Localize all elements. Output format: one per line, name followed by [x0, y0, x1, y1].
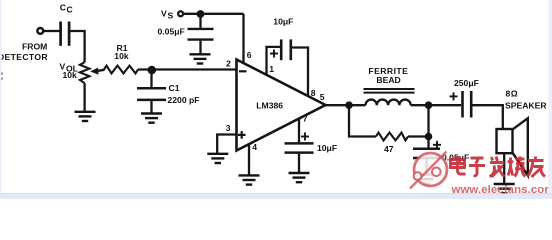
svg-text:7: 7 [303, 113, 308, 123]
svg-text:DETECTOR: DETECTOR [0, 52, 48, 62]
svg-text:SPEAKER: SPEAKER [505, 100, 547, 110]
svg-text:6: 6 [247, 50, 252, 60]
svg-text:47: 47 [384, 144, 394, 154]
svg-text:4: 4 [252, 142, 257, 152]
svg-text:10k: 10k [114, 51, 129, 61]
svg-text:C1: C1 [169, 83, 180, 93]
svg-text:C: C [67, 5, 73, 15]
svg-text:FROM: FROM [22, 42, 47, 52]
svg-text:5: 5 [320, 92, 325, 102]
svg-text:0.05μF: 0.05μF [158, 27, 185, 37]
svg-text:8Ω: 8Ω [506, 89, 519, 99]
svg-text:10k: 10k [63, 70, 78, 80]
svg-text:C: C [60, 3, 66, 13]
svg-text:8: 8 [311, 88, 316, 98]
svg-text:V: V [161, 8, 167, 18]
svg-text:10μF: 10μF [317, 143, 337, 153]
svg-text:10μF: 10μF [273, 17, 293, 27]
svg-text:1: 1 [269, 64, 274, 74]
svg-text:2: 2 [226, 59, 231, 69]
svg-text:S: S [168, 10, 174, 20]
svg-text:3: 3 [226, 123, 231, 133]
svg-text:LM386: LM386 [256, 101, 283, 111]
svg-text:2200 pF: 2200 pF [168, 95, 200, 105]
svg-text:BEAD: BEAD [376, 75, 400, 85]
svg-text:250μF: 250μF [454, 78, 479, 88]
